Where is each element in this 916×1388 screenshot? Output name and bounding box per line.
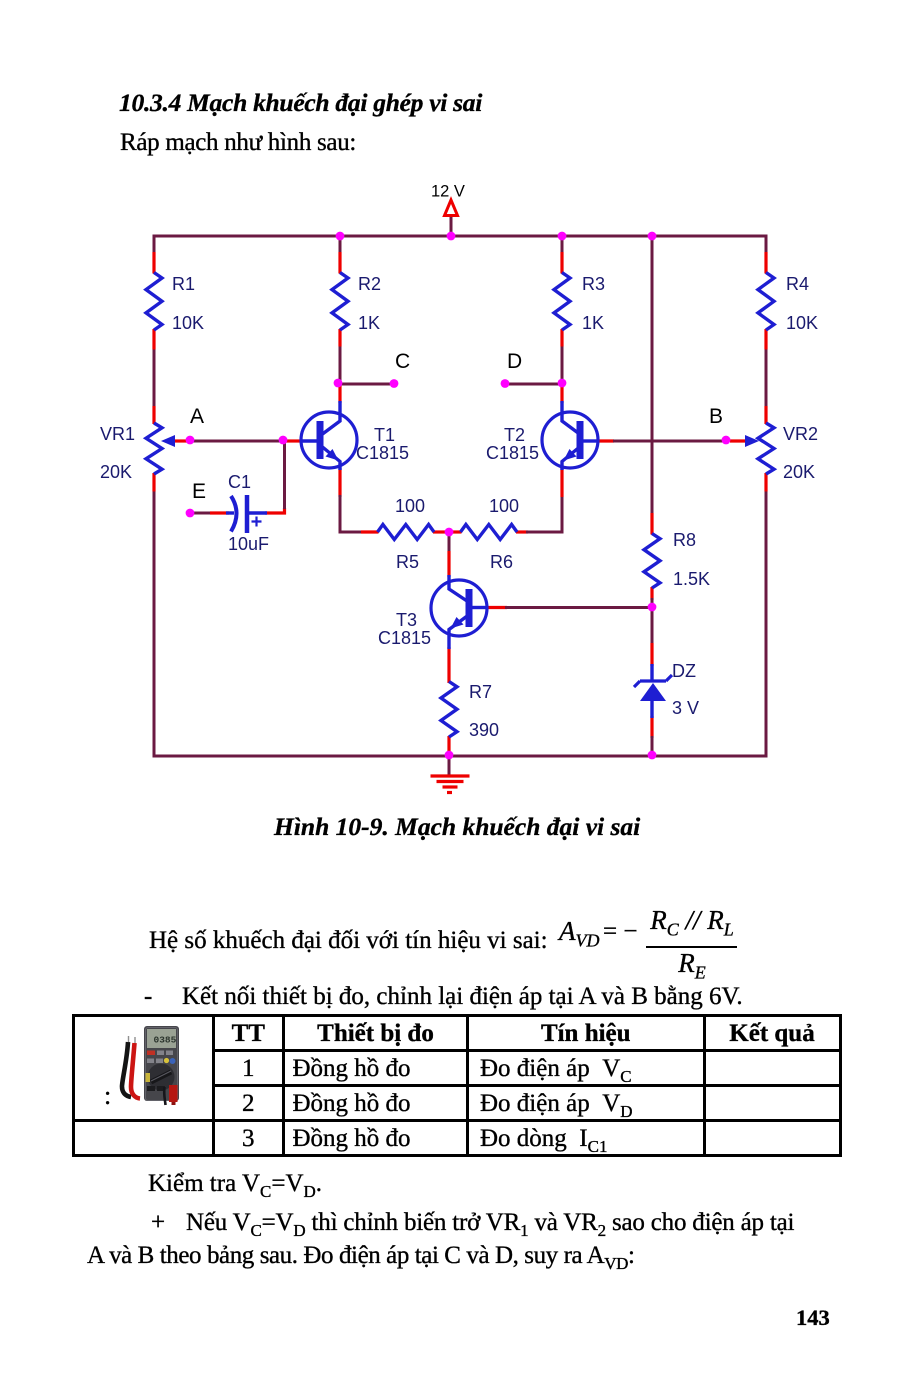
- label: T1 C1815: [356, 425, 409, 463]
- wire: left rail segments (R1/VR1 branch): [153, 236, 156, 756]
- potentiometer VR1: [146, 423, 175, 474]
- paragraph: + Nếu ... line 1: [151, 1210, 165, 1235]
- wire: node C stub: [338, 383, 394, 386]
- wire: center junction down to T3 collector: [448, 534, 451, 577]
- label: R3 1K: [582, 274, 605, 333]
- resistor R3: [554, 273, 570, 331]
- label: VR2 20K: [783, 424, 818, 482]
- wire: T3 emitter to R7: [447, 647, 450, 683]
- svg-text:B: B: [709, 405, 723, 428]
- svg-text:VR1: VR1: [100, 424, 135, 444]
- svg-text:R4: R4: [786, 274, 809, 294]
- resistor R5: [378, 525, 435, 540]
- zener diode DZ: [634, 664, 672, 718]
- wire: node A to T1 base: [175, 439, 302, 442]
- svg-text:E: E: [192, 480, 206, 503]
- svg-text:C1815: C1815: [486, 443, 539, 463]
- wire: +12V top rail: [153, 235, 768, 238]
- colon before multimeter: [104, 1083, 111, 1109]
- paragraph: Ráp mạch như hình sau: [120, 130, 356, 155]
- svg-text:C: C: [395, 350, 410, 373]
- svg-text:T2: T2: [504, 425, 525, 445]
- svg-text:VR2: VR2: [783, 424, 818, 444]
- wire: DZ branch to bottom rail: [651, 610, 654, 756]
- label: T2 C1815: [486, 425, 539, 463]
- svg-text:0385: 0385: [154, 1035, 177, 1046]
- label: R1 10K: [172, 274, 204, 333]
- svg-text:DZ: DZ: [672, 661, 696, 681]
- label: R8 1.5K: [673, 530, 710, 589]
- wire: T1 emitter down and over to R5: [339, 468, 379, 534]
- wire: center junction to R6: [452, 530, 462, 533]
- resistor R7: [441, 682, 457, 738]
- capacitor C1: [226, 495, 267, 533]
- svg-text:R6: R6: [490, 552, 513, 572]
- junction: base T1 / C1: [279, 436, 288, 445]
- wire: 12V stem: [450, 217, 453, 237]
- svg-text:10K: 10K: [786, 313, 818, 333]
- resistor R6: [461, 525, 518, 540]
- svg-text:3 V: 3 V: [672, 698, 699, 718]
- label: R7 390: [469, 682, 499, 740]
- wire: R7 to bottom rail: [447, 736, 450, 751]
- svg-text:20K: 20K: [783, 462, 815, 482]
- svg-text:C1815: C1815: [378, 628, 431, 648]
- svg-text:1K: 1K: [358, 313, 380, 333]
- wire: right rail segments (R4/VR2 branch): [765, 236, 768, 756]
- junction: top rail R3: [558, 232, 567, 241]
- label: C1 10uF: [228, 472, 269, 554]
- wire: R5 to center junction: [433, 530, 446, 533]
- junction: top rail R2: [336, 232, 345, 241]
- svg-text:R2: R2: [358, 274, 381, 294]
- measurement table: [72, 1014, 842, 1017]
- label: R2 1K: [358, 274, 381, 333]
- svg-text:1.5K: 1.5K: [673, 569, 710, 589]
- node B: [709, 405, 730, 444]
- svg-text:10K: 10K: [172, 313, 204, 333]
- potentiometer VR2: [745, 423, 774, 474]
- label: 100 R5: [395, 496, 425, 572]
- wire: R6 over and up to T2 emitter: [516, 468, 564, 534]
- resistor R2: [332, 273, 348, 331]
- formula A_VD = -(RC//RL)/RE: [559, 918, 600, 945]
- wire: R3 collector branch: [561, 236, 564, 403]
- svg-text:12 V: 12 V: [431, 183, 465, 201]
- label: DZ 3 V: [672, 661, 699, 718]
- svg-text:A: A: [190, 405, 204, 428]
- paragraph: Hệ số khuếch đại: [149, 928, 548, 953]
- node E: [186, 480, 206, 517]
- heading 10.3.4: [119, 90, 482, 116]
- node D: [501, 350, 567, 388]
- wire: T3 base to R8/DZ junction: [486, 606, 652, 609]
- junction: top rail R8: [648, 232, 657, 241]
- svg-text:C1: C1: [228, 472, 251, 492]
- page number: [796, 1307, 830, 1330]
- svg-text:R7: R7: [469, 682, 492, 702]
- svg-text:20K: 20K: [100, 462, 132, 482]
- svg-text:D: D: [507, 350, 522, 373]
- label: VR1 20K: [100, 424, 135, 482]
- svg-text:100: 100: [395, 496, 425, 516]
- wire: node D stub: [505, 383, 562, 386]
- junction: R5 R6 T3: [445, 528, 454, 537]
- transistor T1: [300, 401, 357, 470]
- svg-text:R3: R3: [582, 274, 605, 294]
- svg-text:R8: R8: [673, 530, 696, 550]
- wire: left rail red pin segments: [152, 252, 155, 492]
- junction: bottom rail ground: [445, 751, 454, 760]
- power symbol: 12V arrow: [445, 200, 458, 216]
- svg-text:R5: R5: [396, 552, 419, 572]
- junction: bottom rail DZ: [648, 751, 657, 760]
- dash list item: Kết nối thiết bị đo: [144, 984, 152, 1009]
- transistor T2: [542, 401, 599, 470]
- svg-text:C1815: C1815: [356, 443, 409, 463]
- wire: T2 base to node B and VR2: [597, 439, 747, 442]
- wire: R2 collector branch: [339, 236, 342, 403]
- node A: [186, 405, 204, 444]
- svg-text:R1: R1: [172, 274, 195, 294]
- svg-text:100: 100: [489, 496, 519, 516]
- wire: right rail red pin segments: [764, 252, 767, 492]
- wire: R8 branch from top rail: [651, 236, 654, 612]
- svg-text:10uF: 10uF: [228, 534, 269, 554]
- junction: top rail 12V: [447, 232, 456, 241]
- svg-text:390: 390: [469, 720, 499, 740]
- paragraph: + Nếu ... line 2: [87, 1243, 634, 1268]
- paragraph: Kiểm tra: [148, 1171, 322, 1196]
- node C: [334, 350, 411, 388]
- caption Hình 10-9: [274, 814, 640, 840]
- label: T3 C1815: [378, 610, 431, 648]
- wire: C1 to base junction (corner): [265, 443, 286, 515]
- ground: [431, 756, 470, 793]
- svg-text:T1: T1: [374, 425, 395, 445]
- resistor R4: [758, 273, 774, 331]
- resistor R8: [644, 534, 660, 589]
- svg-text:T3: T3: [396, 610, 417, 630]
- label: 100 R6: [489, 496, 519, 572]
- svg-text:1K: 1K: [582, 313, 604, 333]
- junction: R8 DZ T3 base: [648, 603, 657, 612]
- label: R4 10K: [786, 274, 818, 333]
- wire: node E to C1: [193, 512, 229, 515]
- transistor T3: [431, 575, 488, 649]
- wire: bottom ground rail: [153, 755, 768, 758]
- resistor R1: [146, 273, 162, 331]
